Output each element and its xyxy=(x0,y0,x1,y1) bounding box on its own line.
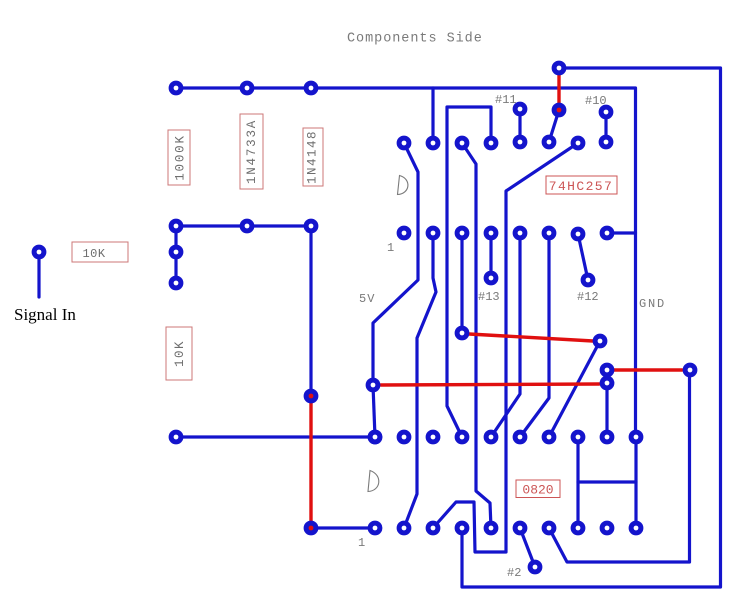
svg-text:#2: #2 xyxy=(507,566,521,580)
wire pin #11 stub (520,109)-(520,142) xyxy=(518,109,521,142)
wire drop from top rail to pad (433,143) xyxy=(431,88,434,143)
pad (311,528) red-filled xyxy=(304,521,319,536)
wire long horizontal (176,437)-(375,437) xyxy=(176,435,375,438)
wire pin #13 stub (491,233)-(491,278) xyxy=(489,233,492,278)
resistor label 10K horizontal xyxy=(72,242,128,262)
resistor label 1000K xyxy=(168,130,190,185)
pad (311,396) red-filled xyxy=(304,389,319,404)
pad (375,437) xyxy=(368,430,383,445)
red jumper wire (462,333)-(599,341) xyxy=(469,334,593,341)
svg-text:1N4148: 1N4148 xyxy=(306,130,320,184)
pad (600,341) xyxy=(593,334,608,349)
pad A1 (176,88) xyxy=(169,81,184,96)
svg-text:10K: 10K xyxy=(82,247,105,261)
wire stacked pads link (607,370)-(607,383) xyxy=(605,370,608,383)
wire net: pad (549,233) down to pad (520,437) xyxy=(520,233,549,437)
svg-text:1: 1 xyxy=(358,536,365,550)
pad A3 (311,88) xyxy=(304,81,319,96)
wire Signal In stub xyxy=(37,252,40,297)
pad #10 (606,112) xyxy=(599,105,614,120)
wire net: pad (520,233) down to pad (491,437) xyxy=(491,233,520,437)
resistor label 10K vertical xyxy=(166,327,192,380)
IC U2 0820 row4 pads y=528 xyxy=(368,521,644,536)
svg-text:1N4733A: 1N4733A xyxy=(245,119,259,184)
pad #2 (535,567) xyxy=(528,560,543,575)
wire net: pad (578,143) long down, U-turn, tent to pad (433,528) xyxy=(433,143,578,552)
pad (607,383) xyxy=(600,376,615,391)
wire (373,385)-(375,437) xyxy=(373,385,375,437)
wire from pad (311,528) to pad (375,528) xyxy=(311,526,375,529)
pad B4 (176,252) xyxy=(169,245,184,260)
IC U1 74HC257 row1 pads y=143 xyxy=(397,135,614,151)
IC U1 label 74HC257 xyxy=(546,176,617,194)
pad #11 (520,109) xyxy=(513,102,528,117)
svg-text:10K: 10K xyxy=(173,340,187,367)
pad Signal In (39,252) xyxy=(32,245,47,260)
red jumper wire (559,72)-(559,111) xyxy=(557,72,560,111)
pad B3 (311,226) xyxy=(304,219,319,234)
pads xyxy=(32,61,698,575)
zener diode label 1N4733A xyxy=(240,114,263,189)
wire net: pad (549,528) down-right along bottom up to pad (690,370) xyxy=(549,370,690,562)
IC U2 0820 row3 pads y=437 xyxy=(368,430,644,445)
IC U2 label 0820 xyxy=(516,480,560,498)
wire branch from pin (607,233) to GND rail xyxy=(607,231,636,234)
wire 5V net: pad (404,143) down to pad (373,385) xyxy=(373,143,418,385)
pad (462,333) xyxy=(455,326,470,341)
wire long diagonal (600,341)-(549,437) xyxy=(549,341,600,437)
svg-text:0820: 0820 xyxy=(522,483,553,498)
wire pin #2 diagonal (520,528)-(535,567) xyxy=(520,528,535,567)
red jumper wire (311,396)-(311,528) xyxy=(309,396,312,528)
wire net: pad (462,143) down long to pad (491,528) xyxy=(462,143,491,528)
svg-text:1000K: 1000K xyxy=(174,134,188,181)
wire H-structure crossbar y=482 xyxy=(578,480,636,483)
pad #13 (491,278) xyxy=(484,271,499,286)
diode label 1N4148 xyxy=(303,128,323,186)
pad (690,370) xyxy=(683,363,698,378)
wire mid-left rail y=226 xyxy=(176,224,311,227)
svg-text:#12: #12 xyxy=(577,290,599,304)
IC U1 notch D mark xyxy=(398,176,408,195)
pad A2 (247,88) xyxy=(240,81,255,96)
wire net: pad (433,233) S-curve down to pad (404,528) xyxy=(404,233,436,528)
IC U2 notch D mark xyxy=(368,471,379,492)
pad (176,437) xyxy=(169,430,184,445)
red jumper wire (373,385)-(607,383) xyxy=(381,384,599,385)
svg-text:5V: 5V xyxy=(359,292,375,306)
wire jog net: pad (491,143) up-left-down to pad (462,437) xyxy=(447,107,491,437)
pad (559,68) top right xyxy=(552,61,567,76)
wire top rail y=88 from pad A1 to x=635 then down to pad at (636,437) GND rail xyxy=(176,88,636,437)
svg-text:74HC257: 74HC257 xyxy=(549,179,613,194)
wire pin #10 stub (606,112)-(606,142) xyxy=(604,112,607,142)
wire x=311 vertical from (311,226) to pad (311,396) xyxy=(309,226,312,396)
svg-text:Components Side: Components Side xyxy=(347,32,483,47)
IC U1 74HC257 row2 pads y=233 xyxy=(397,226,615,242)
svg-text:#11: #11 xyxy=(495,93,517,107)
wire (607,383)-(607,437) xyxy=(605,383,608,437)
pad B2 (247,226) xyxy=(240,219,255,234)
wire H-structure left leg (578,437)-(578,528) xyxy=(576,437,579,528)
pad B1 (176,226) xyxy=(169,219,184,234)
pad (607,370) xyxy=(600,363,615,378)
svg-text:Signal In: Signal In xyxy=(14,305,76,324)
svg-text:GND: GND xyxy=(639,297,666,311)
wire outer border net: pad (559,68) right, down, bottom, up to pad (462,528) xyxy=(462,68,721,587)
wire left column x=176 pads chain xyxy=(174,226,177,283)
wire H-structure right leg (636,437)-(636,528) xyxy=(634,437,637,528)
wire (462,233)-(462,333) xyxy=(460,233,463,333)
wire diagonal (549,142)-(559,110) xyxy=(549,110,559,142)
red jumper wire (607,370)-(690,370) xyxy=(614,368,682,371)
pad (559,110) red-filled xyxy=(552,103,567,118)
pad #12 (588,280) xyxy=(581,273,596,288)
svg-text:1: 1 xyxy=(387,241,394,255)
pad (373,385) 5V node xyxy=(366,378,381,393)
svg-text:#13: #13 xyxy=(478,290,500,304)
wire pin #12 diagonal (578,234)-(588,280) xyxy=(578,234,588,280)
svg-text:#10: #10 xyxy=(585,94,607,108)
pad B5 (176,283) xyxy=(169,276,184,291)
